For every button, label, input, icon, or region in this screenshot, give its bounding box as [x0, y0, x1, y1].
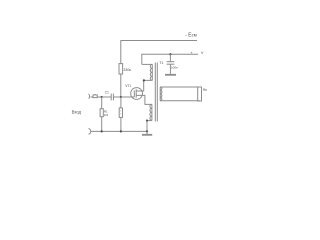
- value 100n: [171, 66, 178, 70]
- transformer T1 secondary winding: [159, 87, 161, 101]
- wire secondary bottom to load: [160, 100, 199, 102]
- wire input to plug: [91, 96, 93, 98]
- node -Ecm rail (bias rail wire): [121, 41, 197, 64]
- transistor VT1 (FET in circle): [131, 88, 143, 100]
- resistor R2: [120, 97, 122, 108]
- capacitor C2 (supply filter): [167, 61, 175, 63]
- resistor R3 330k: [119, 64, 123, 74]
- svg-text:Вход: Вход: [72, 110, 82, 115]
- transformer T1 feedback winding (source): [151, 104, 153, 120]
- label C1: [105, 90, 109, 94]
- wire drain lead: [136, 80, 152, 91]
- label -Ecm: [185, 32, 197, 38]
- wire grid node to transistor gate: [121, 96, 134, 98]
- resistor R1 1M: [101, 97, 103, 109]
- label +V: [190, 50, 204, 55]
- node ground junction: [146, 130, 148, 132]
- node +V rail (supply rail wire): [142, 54, 198, 64]
- transformer T1 primary winding (drain): [151, 64, 153, 80]
- label Rn: [203, 88, 207, 92]
- wire +V to transformer primary top: [142, 63, 153, 65]
- svg-text:С1: С1: [105, 90, 109, 94]
- label T1: [159, 61, 163, 65]
- node A junction: [101, 96, 103, 98]
- wire R1 to bottom rail: [101, 117, 103, 132]
- wire cap stem bottom: [169, 65, 171, 74]
- input connector XS1 bottom contact: [89, 129, 91, 135]
- plug pin symbol: [93, 95, 97, 98]
- label Vhod: [72, 110, 82, 115]
- svg-text:100н: 100н: [171, 66, 178, 70]
- svg-text:330к: 330к: [123, 68, 131, 72]
- node R2 bottom junction: [120, 130, 122, 132]
- svg-text:1М: 1М: [104, 113, 109, 117]
- wire source lead: [136, 95, 152, 104]
- load resistor Rn: [198, 87, 202, 101]
- capacitor C1: [110, 94, 112, 101]
- wire node A to C1: [102, 96, 112, 98]
- ground (filter cap): [165, 74, 176, 76]
- node R1 bottom junction: [101, 130, 103, 132]
- grid node junction: [120, 96, 122, 98]
- input connector XS1 top contact: [89, 94, 90, 99]
- wire 330k to grid node: [120, 74, 122, 97]
- node drain dot: [143, 79, 145, 81]
- node winding-bottom dot: [146, 120, 148, 122]
- wire down to bottom rail: [146, 121, 148, 132]
- svg-text:Т1: Т1: [159, 61, 163, 65]
- wire winding bottom to ground junction: [147, 120, 152, 122]
- transformer T1 core: [154, 63, 156, 122]
- junction on +V rail for filter cap: [169, 53, 171, 55]
- svg-text:VT1: VT1: [125, 84, 131, 88]
- wire C1 to grid node: [113, 96, 121, 98]
- wire bottom rail: [91, 130, 147, 132]
- wire secondary top to load: [160, 86, 199, 88]
- label VT1: [125, 84, 131, 88]
- ground (main): [146, 131, 148, 134]
- svg-text:Rн: Rн: [203, 88, 207, 92]
- wire cap stem top: [169, 54, 171, 61]
- wire R2 to bottom rail: [120, 117, 122, 131]
- value 330k: [123, 68, 131, 72]
- svg-text:- Есм: - Есм: [185, 32, 197, 38]
- svg-text:V: V: [201, 50, 204, 55]
- wire plug to node A: [98, 96, 102, 98]
